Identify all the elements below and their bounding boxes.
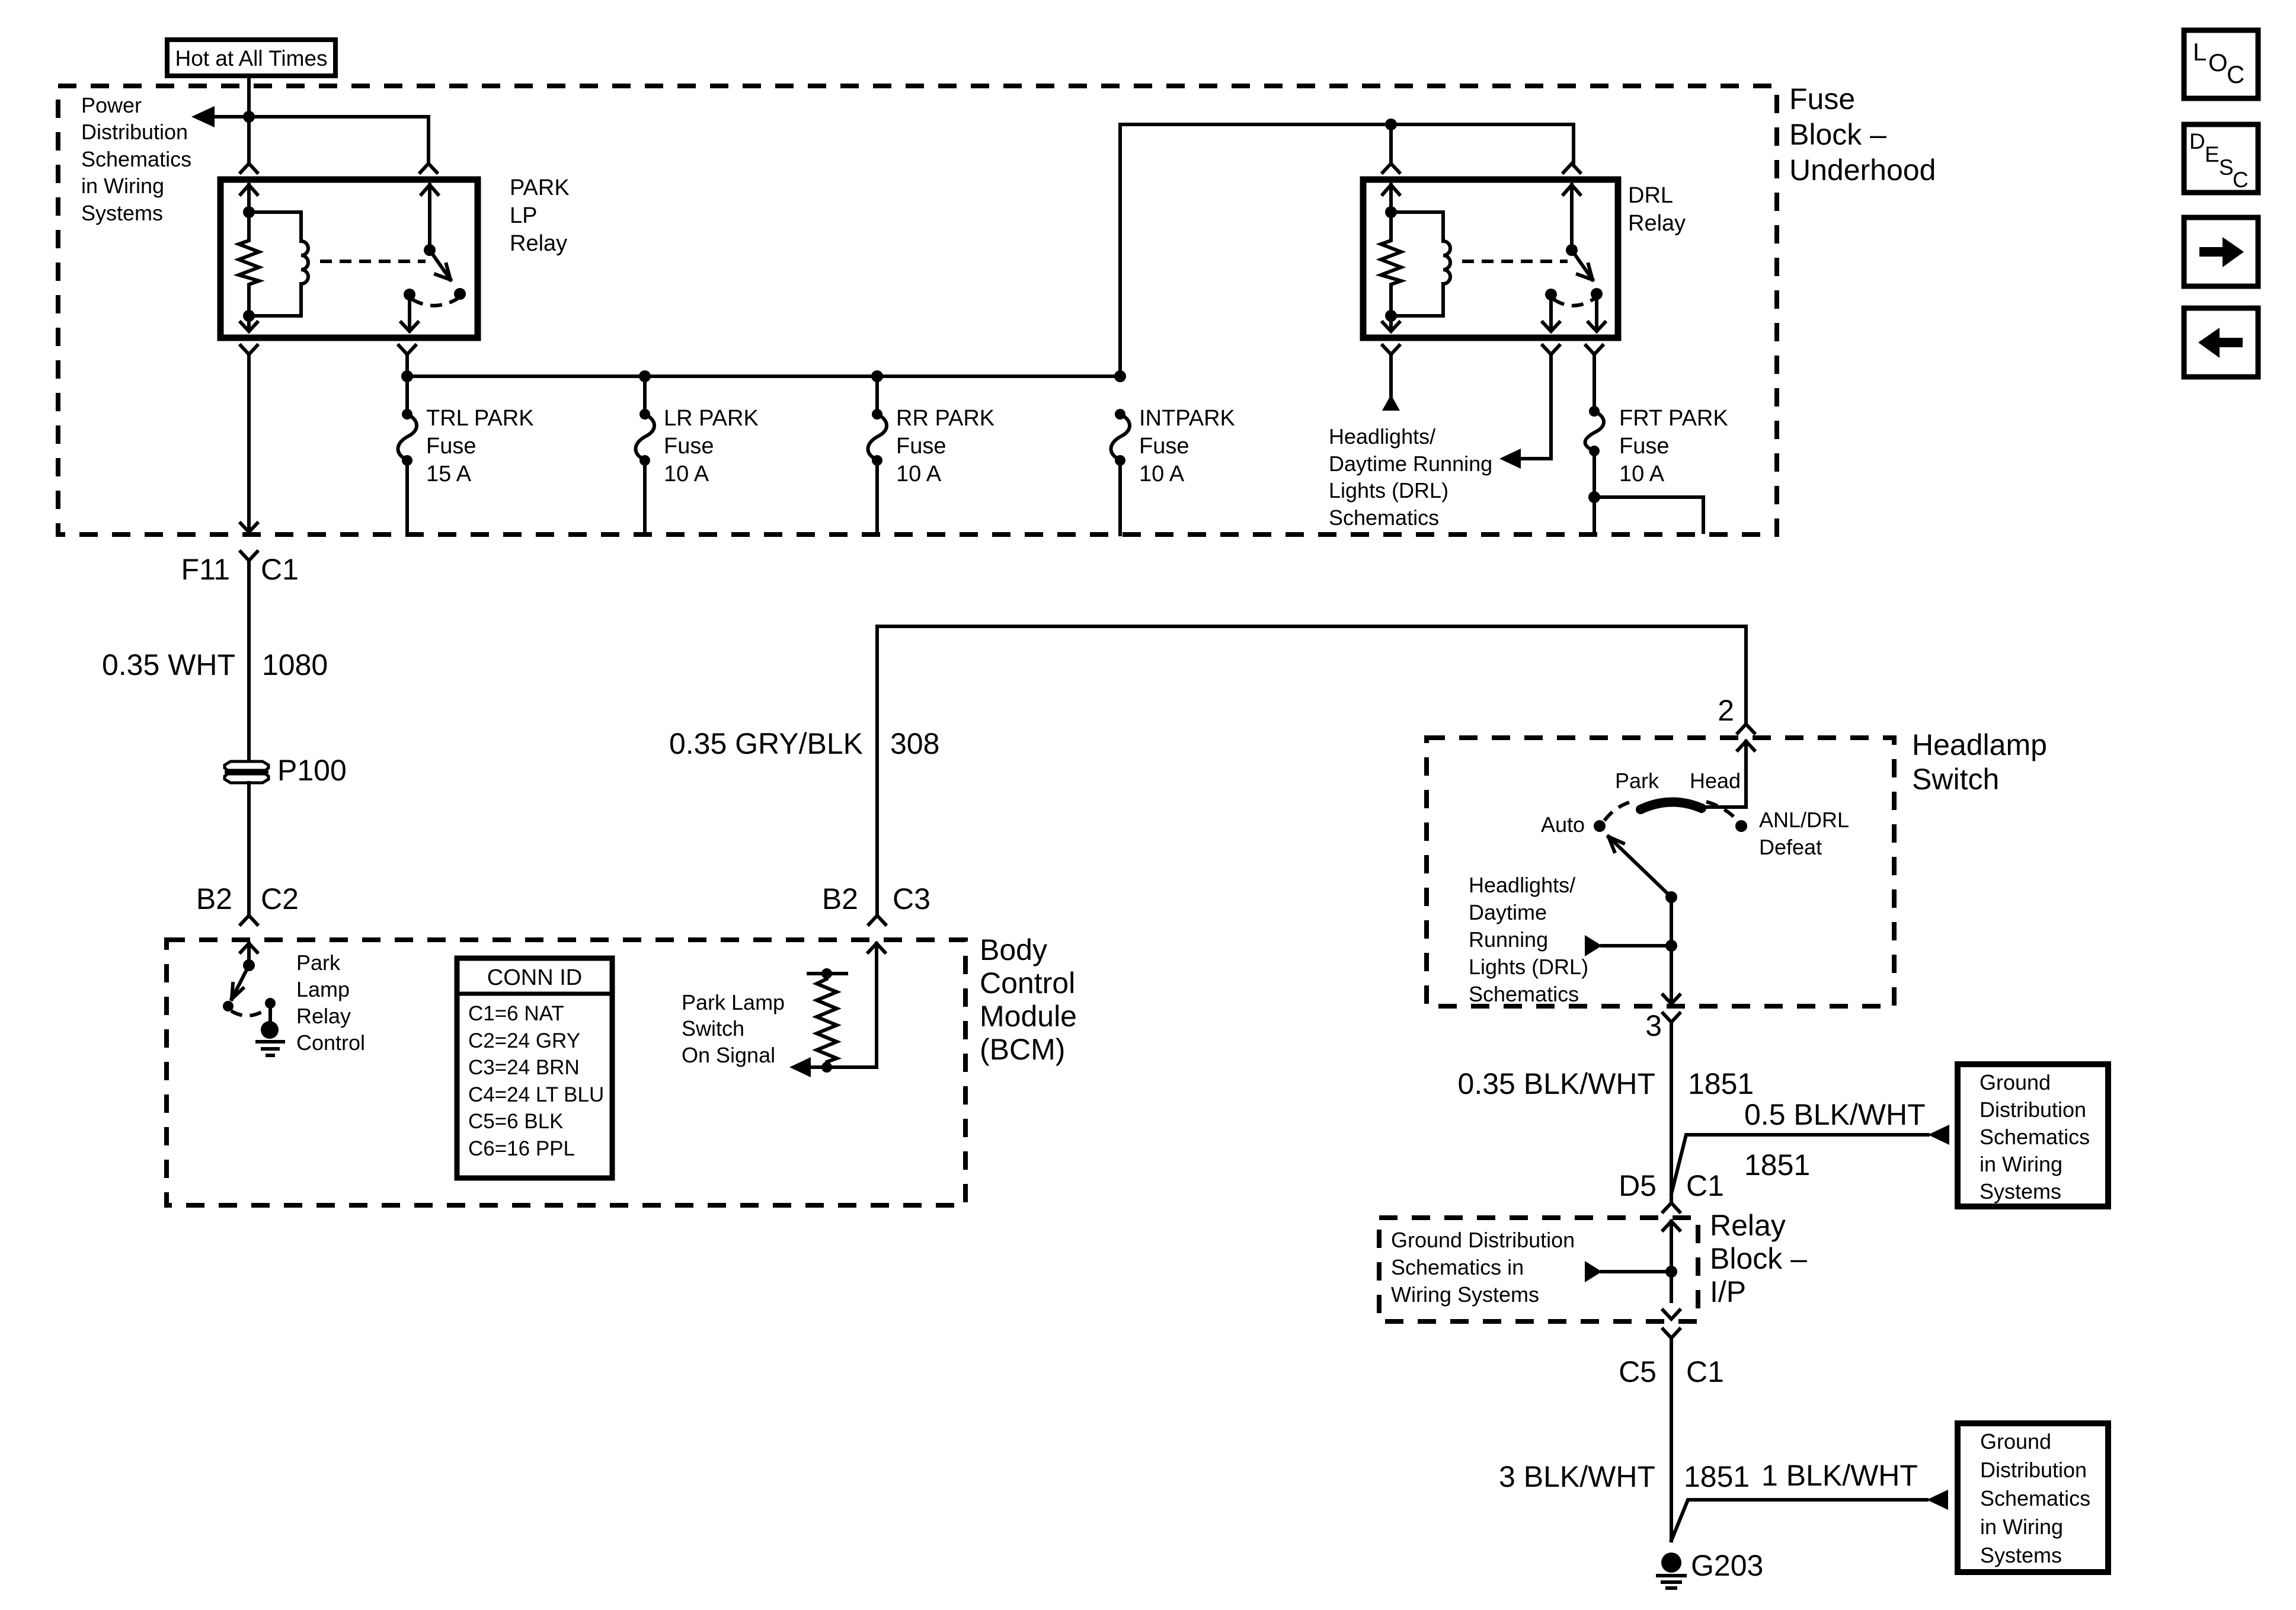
arrow to ground distribution reference bottom [1927,1490,1948,1510]
pin arrow into DRL coil [1383,185,1399,212]
connector fork above headlamp switch pin 2 [1738,724,1754,733]
fuse FRT PARK 10A [1593,354,1596,411]
label DESC [2189,129,2249,192]
connector fork below fuse block F11 [241,552,257,761]
connector fork above relay coil pin [241,164,257,172]
node DRL coil feed tap [1385,119,1397,130]
svg-text:Relay: Relay [296,1004,351,1028]
switch arm DRL relay [1572,250,1593,280]
node DRL coil top [1385,206,1397,218]
node park lamp control contact right [265,998,276,1009]
svg-text:INTPARK: INTPARK [1139,406,1235,431]
arrow from headlights DRL schematics [1585,935,1602,956]
arrow to Power Distribution Schematics [191,106,215,127]
node park lamp control contact left [223,1001,234,1012]
svg-text:RR PARK: RR PARK [896,406,994,431]
switch arm headlamp selector [1609,837,1671,897]
box ground distribution schematics top [1958,1064,2108,1206]
svg-text:Fuse: Fuse [1789,82,1855,116]
svg-text:Fuse: Fuse [896,434,946,459]
svg-text:PARK: PARK [510,175,570,200]
svg-text:Switch: Switch [682,1016,744,1041]
svg-text:Schematics in: Schematics in [1391,1255,1524,1279]
label Headlights Daytime Running Lights DRL Schematics in switch [1469,873,1588,1006]
svg-text:TRL PARK: TRL PARK [426,406,534,431]
label Power Distribution Schematics in Wiring Systems [81,93,191,225]
svg-text:Headlamp: Headlamp [1912,728,2047,761]
svg-text:Underhood: Underhood [1789,153,1936,187]
connector fork above relay switch pin [420,164,437,172]
svg-text:1851: 1851 [1688,1067,1754,1100]
pin arrow DRL switch common [1563,185,1580,250]
dashed arc Head to ANL [1706,802,1737,820]
svg-text:Park: Park [296,950,341,975]
svg-text:Distribution: Distribution [1980,1458,2087,1482]
svg-text:C2=24 GRY: C2=24 GRY [468,1029,580,1052]
svg-text:I/P: I/P [1710,1275,1746,1308]
label PARK LP Relay [510,175,570,256]
svg-text:Schematics: Schematics [81,147,191,171]
connector fork above DRL switch pin [1563,164,1580,172]
svg-text:C1: C1 [261,553,299,586]
label LR PARK Fuse 10 A [664,406,759,486]
pin arrow relay switch common [421,185,438,250]
label INTPARK Fuse 10 A [1139,406,1235,486]
wire branch 1 BLK/WHT to ground distribution [1671,1500,1927,1541]
svg-text:C: C [2233,168,2249,192]
svg-text:Distribution: Distribution [1980,1097,2086,1122]
arrow to Headlights DRL schematics (down triangle) [1382,395,1400,411]
relay DRL Relay box [1363,180,1618,338]
svg-text:Ground: Ground [1980,1429,2051,1454]
wire branch 0.5 BLK/WHT to ground distribution [1671,1135,1928,1194]
pin arrow relay coil to ground side [241,316,257,331]
svg-text:1080: 1080 [262,648,328,681]
fuse RR PARK 10A [875,376,879,414]
connector fork below headlamp switch pin 3 [1663,1013,1680,1203]
svg-text:0.35 BLK/WHT: 0.35 BLK/WHT [1458,1067,1655,1100]
svg-text:Switch: Switch [1912,763,1999,796]
svg-text:Lamp: Lamp [296,977,350,1001]
fuse TRL PARK 15A [405,376,409,414]
svg-text:Fuse: Fuse [1139,434,1189,459]
svg-text:Block –: Block – [1789,118,1886,151]
arrow on signal output [789,1057,811,1077]
svg-text:Lights (DRL): Lights (DRL) [1469,955,1588,979]
svg-text:10 A: 10 A [664,462,709,486]
svg-text:P100: P100 [277,754,347,787]
svg-text:FRT PARK: FRT PARK [1619,406,1728,431]
svg-text:C4=24 LT BLU: C4=24 LT BLU [468,1083,604,1106]
svg-text:1 BLK/WHT: 1 BLK/WHT [1761,1459,1918,1492]
headlamp switch dashed enclosure [1427,738,1894,1006]
svg-text:Daytime Running: Daytime Running [1329,452,1492,476]
dashed link relay coil to arm [320,260,426,263]
svg-text:Lights (DRL): Lights (DRL) [1329,478,1448,502]
svg-text:Schematics: Schematics [1329,505,1439,530]
inductor DRL coil [1391,212,1450,316]
label RR PARK Fuse 10 A [896,406,994,486]
node bus at TRL PARK [401,370,413,382]
node Auto position [1594,820,1606,832]
box ground distribution schematics bottom [1958,1423,2108,1572]
arrow wire exits fuse block at F11 [241,523,257,532]
arrow to ground distribution reference top [1928,1125,1949,1145]
arrow out of headlamp switch pin 3 [1663,995,1680,1004]
relay block IP dashed enclosure [1379,1218,1698,1321]
connector fork above BCM B2 [241,916,257,924]
box arrow left [2184,308,2258,377]
ground symbol BCM [257,1042,283,1055]
svg-text:Systems: Systems [1980,1543,2062,1567]
label Park Lamp Relay Control [296,950,365,1055]
svg-text:Auto: Auto [1541,812,1585,837]
svg-text:L: L [2193,38,2207,66]
svg-text:3: 3 [1645,1009,1662,1042]
svg-text:F11: F11 [181,553,230,586]
svg-text:15 A: 15 A [426,462,472,486]
dashed link DRL coil to arm [1462,260,1568,263]
ground ball [261,1021,279,1039]
svg-text:B2: B2 [822,882,858,916]
label Headlamp Switch [1912,728,2047,796]
label Relay Block - I/P [1710,1209,1807,1308]
node park lamp relay control common [243,959,255,971]
switch contact bar Park-Head [1641,802,1702,809]
svg-text:D: D [2189,129,2205,153]
wire ground distribution into relay block [1602,1270,1671,1273]
svg-text:Fuse: Fuse [1619,434,1669,459]
wire on signal to C3 pin [808,943,877,1067]
dashed arc relay contact travel [412,299,458,306]
switch arm PARK LP relay [430,250,450,280]
svg-text:G203: G203 [1691,1549,1763,1582]
Hot at All Times box [167,40,335,76]
svg-text:Module: Module [980,1000,1077,1033]
pin arrow DRL output left [1543,295,1559,331]
label Ground Distribution Schematics in Wiring Systems inside relay block [1391,1228,1575,1307]
svg-text:D5: D5 [1619,1169,1657,1202]
dashed arc park lamp control travel [231,1009,267,1016]
connector fork below relay block C5 [1663,1329,1680,1541]
svg-text:0.5 BLK/WHT: 0.5 BLK/WHT [1744,1098,1926,1131]
wire DRL signal into switch [1602,944,1671,948]
svg-text:Daytime: Daytime [1469,900,1547,924]
svg-text:Wiring Systems: Wiring Systems [1391,1282,1539,1307]
svg-text:CONN ID: CONN ID [487,965,582,990]
node DRL contact right [1591,288,1603,300]
relay PARK LP Relay box [220,180,478,338]
node bus at INTPARK riser [1114,370,1126,382]
label FRT PARK Fuse 10 A [1619,406,1728,486]
node coil bottom [243,310,255,322]
node coil top [243,206,255,218]
connector fork above DRL coil pin [1383,164,1399,172]
node relay block ground tap [1665,1266,1677,1278]
label TRL PARK Fuse 15 A [426,406,534,486]
box arrow right [2184,217,2258,286]
pin arrow DRL output right [1588,294,1605,331]
svg-text:C1=6 NAT: C1=6 NAT [468,1002,564,1025]
wire tap down to DRL coil pin [1389,124,1393,164]
svg-text:On Signal: On Signal [682,1043,775,1067]
ground symbol G203 [1658,1576,1685,1588]
node bus at LR PARK [639,370,651,382]
resistor park lamp switch on signal [808,974,846,1067]
svg-text:C5: C5 [1619,1355,1657,1388]
wire bus from relay output to fuses [407,354,1120,376]
node DRL switch common [1566,244,1578,256]
svg-text:2: 2 [1718,694,1734,727]
svg-text:10 A: 10 A [1139,462,1185,486]
connector fork above BCM C3 [869,916,885,924]
wire riser to DRL feed [1120,124,1574,376]
switch arm park lamp relay control [232,965,249,999]
svg-text:Schematics: Schematics [1469,982,1579,1006]
arrow left to DRL schematics [1499,449,1521,469]
wire GRY/BLK from BCM to headlamp switch pin 2 [877,626,1746,916]
svg-text:Relay: Relay [510,231,567,256]
connector fork above relay block D5 [1663,1203,1680,1212]
svg-text:Headlights/: Headlights/ [1329,424,1435,449]
label ANL DRL Defeat [1759,808,1849,859]
connector P100 inline [225,761,268,783]
svg-text:0.35 GRY/BLK: 0.35 GRY/BLK [669,727,863,760]
svg-text:ANL/DRL: ANL/DRL [1759,808,1849,832]
node resistor top [821,968,832,979]
svg-text:Relay: Relay [1710,1209,1786,1242]
svg-text:C3=24 BRN: C3=24 BRN [468,1056,580,1079]
svg-text:Hot at All Times: Hot at All Times [175,46,327,71]
node selector pivot [1665,891,1677,903]
table CONN ID [457,958,612,1178]
arrow out of relay block C5 [1663,1310,1680,1319]
connector fork below DRL coil output [1383,345,1399,396]
svg-text:C6=16 PPL: C6=16 PPL [468,1137,575,1160]
svg-text:Head: Head [1690,769,1741,793]
svg-text:Defeat: Defeat [1759,835,1822,859]
svg-text:1851: 1851 [1744,1148,1810,1182]
svg-text:LP: LP [510,203,537,228]
node DRL signal tap [1665,940,1677,952]
wire DRL left contact to DRL schematics arrow [1520,354,1551,459]
svg-text:Running: Running [1469,927,1548,952]
svg-text:(BCM): (BCM) [980,1033,1065,1066]
svg-text:B2: B2 [196,882,232,916]
node relay switch common [424,244,436,256]
ground ball G203 [1661,1553,1681,1573]
wire P100 to BCM [247,783,251,916]
svg-text:Park Lamp: Park Lamp [682,990,785,1014]
connector fork below DRL left contact [1543,345,1559,354]
svg-text:Schematics: Schematics [1980,1125,2090,1149]
node ANL DRL Defeat position [1735,820,1747,832]
svg-text:0.35 WHT: 0.35 WHT [102,648,235,681]
box DESC [2184,124,2258,193]
pin arrow into relay coil [241,185,257,212]
inductor relay coil [249,212,308,316]
node relay contact NC [404,289,415,300]
dashed arc DRL contact travel [1553,299,1594,306]
svg-text:Power: Power [81,93,142,117]
svg-text:Park: Park [1615,769,1659,793]
label Headlights Daytime Running Lights DRL Schematics [1329,424,1492,530]
arrow into BCM at C3 [868,943,885,952]
svg-text:Body: Body [980,933,1047,966]
pin arrow relay output [401,295,418,331]
svg-text:C: C [2227,60,2244,88]
svg-text:308: 308 [890,727,939,760]
svg-text:Relay: Relay [1628,211,1686,236]
wire branch to Power Distribution reference [213,117,428,164]
arrow into relay block [1663,1221,1680,1301]
svg-text:10 A: 10 A [896,462,942,486]
svg-text:Ground Distribution: Ground Distribution [1391,1228,1575,1252]
BCM dashed enclosure [167,940,965,1205]
node bus at RR PARK [871,370,883,382]
node resistor bottom [821,1062,832,1073]
pin arrow DRL coil output [1383,316,1399,331]
dashed arc Auto to Park [1604,801,1636,821]
wire FRT PARK branch to block edge [1594,497,1703,532]
label Fuse Block - Underhood [1789,82,1936,187]
svg-text:3 BLK/WHT: 3 BLK/WHT [1499,1460,1655,1493]
svg-text:Distribution: Distribution [81,120,188,144]
svg-text:Block –: Block – [1710,1242,1807,1275]
resistor DRL coil suppression [1381,212,1401,316]
connector fork below DRL right contact [1586,345,1603,354]
fuse INTPARK 10A [1115,409,1125,420]
svg-text:Systems: Systems [81,201,163,225]
svg-text:C3: C3 [893,882,930,916]
svg-text:1851: 1851 [1684,1460,1750,1493]
arrow into BCM at B2 C2 [241,943,257,965]
label Park Lamp Switch On Signal [682,990,785,1067]
svg-text:C5=6 BLK: C5=6 BLK [468,1110,564,1133]
svg-text:DRL: DRL [1628,183,1673,208]
wire contact to ground ball [268,1003,272,1022]
node junction on supply wire [243,111,255,123]
svg-text:Fuse: Fuse [426,434,476,459]
node DRL contact left [1545,289,1557,300]
svg-text:in Wiring: in Wiring [1980,1152,2062,1176]
label Body Control Module BCM [980,933,1077,1066]
svg-text:Headlights/: Headlights/ [1469,873,1575,897]
node FRT PARK branch [1588,491,1600,503]
label LOC [2193,38,2244,88]
arrow into headlamp switch pin 2 [1738,741,1754,807]
svg-text:C1: C1 [1686,1355,1724,1388]
resistor relay coil suppression [239,212,259,316]
fuse block underhood dashed enclosure [58,86,1777,534]
box LOC [2184,30,2258,98]
svg-text:E: E [2205,142,2220,167]
svg-text:Ground: Ground [1980,1070,2051,1094]
node relay contact NO [454,288,466,300]
svg-text:Control: Control [296,1030,365,1055]
svg-text:C1: C1 [1686,1169,1724,1202]
svg-text:Fuse: Fuse [664,434,714,459]
connector fork below relay output [399,345,415,354]
svg-text:C2: C2 [261,882,299,916]
label DRL Relay [1628,183,1686,236]
svg-text:in Wiring: in Wiring [1980,1515,2063,1539]
fuse LR PARK 10A [643,376,647,414]
arrow from ground distribution schematics [1585,1261,1602,1282]
wire selector down to pin 3 [1670,897,1673,1000]
svg-text:Control: Control [980,966,1075,1000]
svg-text:in Wiring: in Wiring [81,174,164,198]
svg-text:LR PARK: LR PARK [664,406,759,431]
node DRL coil bottom [1385,310,1397,322]
svg-text:10 A: 10 A [1619,462,1665,486]
svg-text:Schematics: Schematics [1980,1486,2090,1510]
svg-text:S: S [2219,155,2234,180]
svg-text:O: O [2208,49,2228,76]
wire head contact lead [1702,805,1746,809]
svg-text:Systems: Systems [1980,1179,2061,1204]
wire from Hot at All Times down to relay coil pin [247,76,251,164]
connector fork below relay coil [241,345,257,530]
